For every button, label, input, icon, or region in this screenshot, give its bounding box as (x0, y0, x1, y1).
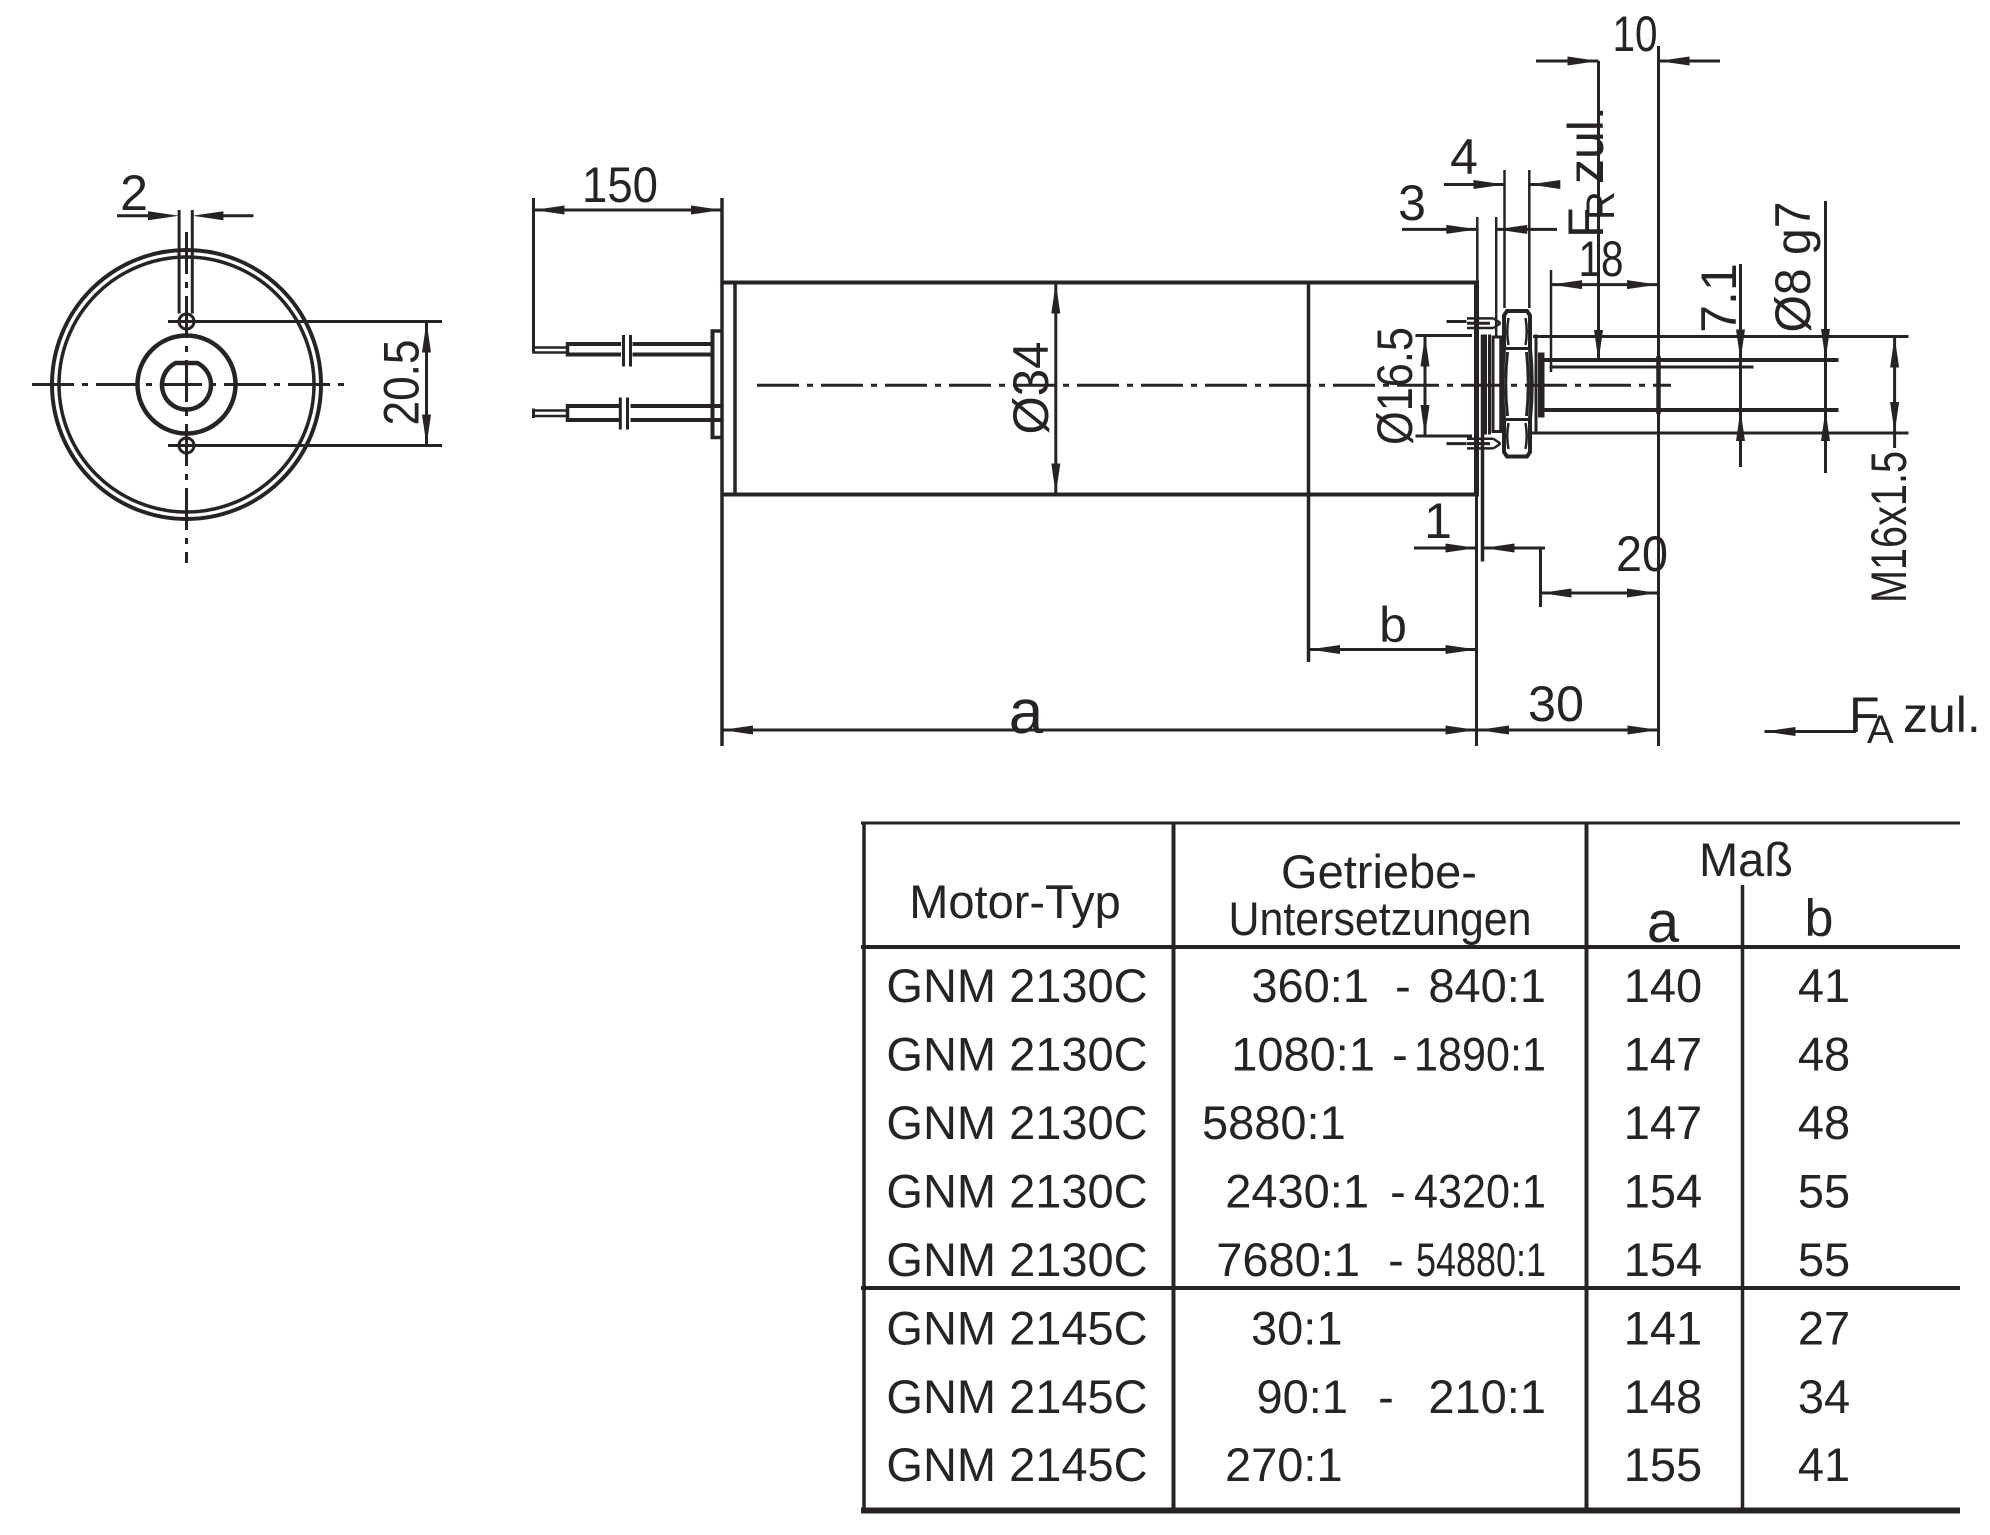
output shaft bottom edge (1543, 408, 1839, 412)
svg-text:270:1: 270:1 (1225, 1438, 1343, 1491)
svg-text:90:1: 90:1 (1257, 1370, 1348, 1423)
svg-text:48: 48 (1798, 1027, 1850, 1080)
terminal plate left edge (711, 331, 715, 438)
svg-text:210:1: 210:1 (1428, 1370, 1546, 1423)
svg-text:20: 20 (1616, 526, 1668, 582)
dimension M16x1.5 (1893, 337, 1896, 449)
dimension b (1309, 648, 1477, 651)
svg-text:155: 155 (1624, 1438, 1702, 1491)
table column line a/b (1741, 885, 1745, 1510)
front view rim circle (59, 257, 314, 512)
hex nut facet lines (1504, 347, 1530, 350)
table header separator (861, 945, 1960, 949)
svg-text:147: 147 (1624, 1027, 1702, 1080)
svg-text:150: 150 (582, 157, 658, 213)
svg-text:34: 34 (1798, 1370, 1850, 1423)
dimension 7.1 (1739, 264, 1742, 467)
hex nut bottom facet arcs (1507, 423, 1508, 449)
front view vertical centerline (185, 232, 188, 563)
svg-text:360:1: 360:1 (1251, 959, 1369, 1012)
dimension 3 (1402, 228, 1477, 231)
svg-text:A: A (1867, 708, 1894, 752)
terminal plate bottom cap (711, 436, 723, 440)
FR zul. label (1558, 106, 1623, 238)
svg-text:154: 154 (1624, 1233, 1702, 1286)
svg-text:1890:1: 1890:1 (1414, 1027, 1546, 1080)
dimension 10 (1536, 60, 1599, 63)
upper wire break marks (622, 335, 625, 367)
dimension 150 extension at wire end (532, 198, 535, 354)
dimension 4 (1444, 183, 1505, 186)
Ø16.5 extension lines (1416, 334, 1473, 337)
svg-text:R: R (1579, 191, 1623, 220)
front view bottom screw hole (179, 438, 194, 453)
svg-text:a: a (1647, 890, 1680, 955)
svg-text:30: 30 (1528, 676, 1584, 732)
svg-text:Untersetzungen: Untersetzungen (1229, 892, 1532, 945)
table top border (861, 822, 1960, 825)
top fixing screw side view (1447, 320, 1467, 323)
svg-text:-: - (1392, 1027, 1408, 1080)
svg-text:41: 41 (1798, 1438, 1850, 1491)
svg-text:GNM 2145C: GNM 2145C (886, 1370, 1147, 1423)
front view slot line right (191, 210, 194, 314)
svg-text:55: 55 (1798, 1164, 1850, 1217)
svg-text:1: 1 (1424, 493, 1452, 549)
svg-text:2430:1: 2430:1 (1225, 1164, 1369, 1217)
front view shaft circle with flat (162, 363, 211, 409)
boss face line with 1-dim extension (1481, 335, 1485, 562)
table column line Motor-Typ/Getriebe (1172, 823, 1176, 1510)
dimension Ø16.5 (1424, 336, 1427, 437)
svg-text:27: 27 (1798, 1301, 1850, 1354)
svg-text:GNM 2130C: GNM 2130C (886, 959, 1147, 1012)
svg-text:20.5: 20.5 (373, 340, 429, 426)
shaft end extension line (10/30 dims) (1657, 46, 1660, 746)
dimension Ø8 g7 (1824, 201, 1827, 473)
svg-text:M16x1.5: M16x1.5 (1861, 451, 1917, 603)
svg-text:GNM 2130C: GNM 2130C (886, 1096, 1147, 1149)
hex nut middle facet arcs (1506, 352, 1508, 416)
bottom fixing screw side view (1447, 442, 1467, 445)
dimension a (722, 729, 1477, 732)
svg-text:2: 2 (120, 165, 148, 221)
svg-text:840:1: 840:1 (1428, 959, 1546, 1012)
dimension 30 (1478, 729, 1659, 732)
front view bearing boss circle (138, 336, 236, 434)
M16 thread extension line bottom (1530, 432, 1909, 435)
motor body bottom edge (722, 493, 1478, 497)
front view outer circle (motor housing) (52, 250, 321, 519)
hex nut top facet arcs (1507, 318, 1508, 345)
dimension 20 (1541, 592, 1659, 595)
svg-text:54880:1: 54880:1 (1416, 1233, 1546, 1286)
svg-text:4320:1: 4320:1 (1414, 1164, 1546, 1217)
dimension 20.5 line (425, 322, 428, 446)
svg-text:a: a (1009, 678, 1044, 747)
svg-text:5880:1: 5880:1 (1202, 1096, 1346, 1149)
M16 thread extension line top (1533, 335, 1909, 338)
FR zul. radial force arrow (1597, 61, 1600, 361)
svg-text:zul.: zul. (1558, 106, 1614, 184)
motor left face with 150/a extension (720, 198, 724, 746)
FA zul. label (1849, 687, 1981, 752)
dimension 1 (1414, 547, 1477, 550)
svg-text:148: 148 (1624, 1370, 1702, 1423)
svg-text:-: - (1390, 1164, 1406, 1217)
table bottom border (861, 1508, 1960, 1514)
motor left cap inner line (733, 283, 737, 495)
dimension 150 line (534, 209, 723, 212)
svg-text:GNM 2130C: GNM 2130C (886, 1027, 1147, 1080)
svg-text:GNM 2130C: GNM 2130C (886, 1233, 1147, 1286)
table block separator (861, 1286, 1960, 1290)
svg-text:30:1: 30:1 (1251, 1301, 1342, 1354)
output shaft flat line (1550, 366, 1754, 369)
lower wire break marks (619, 398, 622, 430)
svg-text:GNM 2145C: GNM 2145C (886, 1438, 1147, 1491)
svg-text:Motor-Typ: Motor-Typ (909, 875, 1121, 928)
terminal plate top cap (711, 329, 723, 333)
output shaft top edge (1543, 358, 1839, 362)
dimension 2 line right (222, 214, 253, 217)
svg-text:154: 154 (1624, 1164, 1702, 1217)
svg-text:3: 3 (1398, 175, 1426, 231)
svg-text:147: 147 (1624, 1096, 1702, 1149)
upper lead wire stripped end (534, 346, 568, 349)
svg-text:Ø34: Ø34 (1003, 342, 1059, 435)
gearbox joint line with b extension (1307, 283, 1311, 663)
svg-text:18: 18 (1579, 231, 1624, 287)
svg-text:140: 140 (1624, 959, 1702, 1012)
FA zul. axial force arrow (1765, 730, 1857, 733)
svg-text:55: 55 (1798, 1233, 1850, 1286)
gearbox right face thick (1474, 281, 1479, 497)
side view centerline (757, 384, 1671, 387)
svg-text:141: 141 (1624, 1301, 1702, 1354)
dimension 2 line left (117, 214, 149, 217)
svg-text:48: 48 (1798, 1096, 1850, 1149)
table left border (862, 823, 866, 1510)
lower lead wire stripped end (534, 409, 568, 412)
upper lead wire insulation (568, 342, 622, 346)
dimension Ø34 (1054, 281, 1057, 496)
svg-text:4: 4 (1450, 129, 1478, 185)
motor body top edge (722, 281, 1478, 285)
front view slot line left (178, 210, 181, 314)
svg-text:10: 10 (1613, 6, 1658, 62)
svg-text:-: - (1388, 1233, 1404, 1286)
svg-text:Ø16.5: Ø16.5 (1367, 327, 1423, 445)
front view top screw hole (179, 314, 194, 329)
svg-text:GNM 2130C: GNM 2130C (886, 1164, 1147, 1217)
screw pitch extension line bottom (168, 444, 442, 447)
svg-text:1080:1: 1080:1 (1231, 1027, 1375, 1080)
svg-text:GNM 2145C: GNM 2145C (886, 1301, 1147, 1354)
screw pitch extension line top (168, 320, 442, 323)
spring washer (1492, 337, 1495, 432)
washer lines (1484, 335, 1487, 435)
hex nut M16 outline (1502, 311, 1532, 457)
svg-text:41: 41 (1798, 959, 1850, 1012)
svg-text:Getriebe-: Getriebe- (1281, 845, 1477, 898)
svg-text:b: b (1379, 597, 1407, 653)
dimension 18 (1551, 283, 1658, 286)
svg-text:7.1: 7.1 (1691, 263, 1747, 333)
svg-text:-: - (1395, 959, 1411, 1012)
washer after nut (1535, 335, 1538, 435)
svg-text:zul.: zul. (1903, 687, 1981, 743)
lower lead wire insulation (568, 404, 620, 408)
gearbox right face extension down (1475, 497, 1478, 747)
front view horizontal centerline (32, 383, 346, 386)
shaft shoulder collar (1538, 353, 1545, 418)
svg-text:b: b (1805, 890, 1834, 948)
svg-text:Ø8 g7: Ø8 g7 (1765, 202, 1821, 333)
svg-text:-: - (1378, 1370, 1394, 1423)
table column line Getriebe/Mass (1585, 823, 1589, 1510)
svg-text:7680:1: 7680:1 (1216, 1233, 1360, 1286)
svg-text:Maß: Maß (1699, 833, 1793, 886)
